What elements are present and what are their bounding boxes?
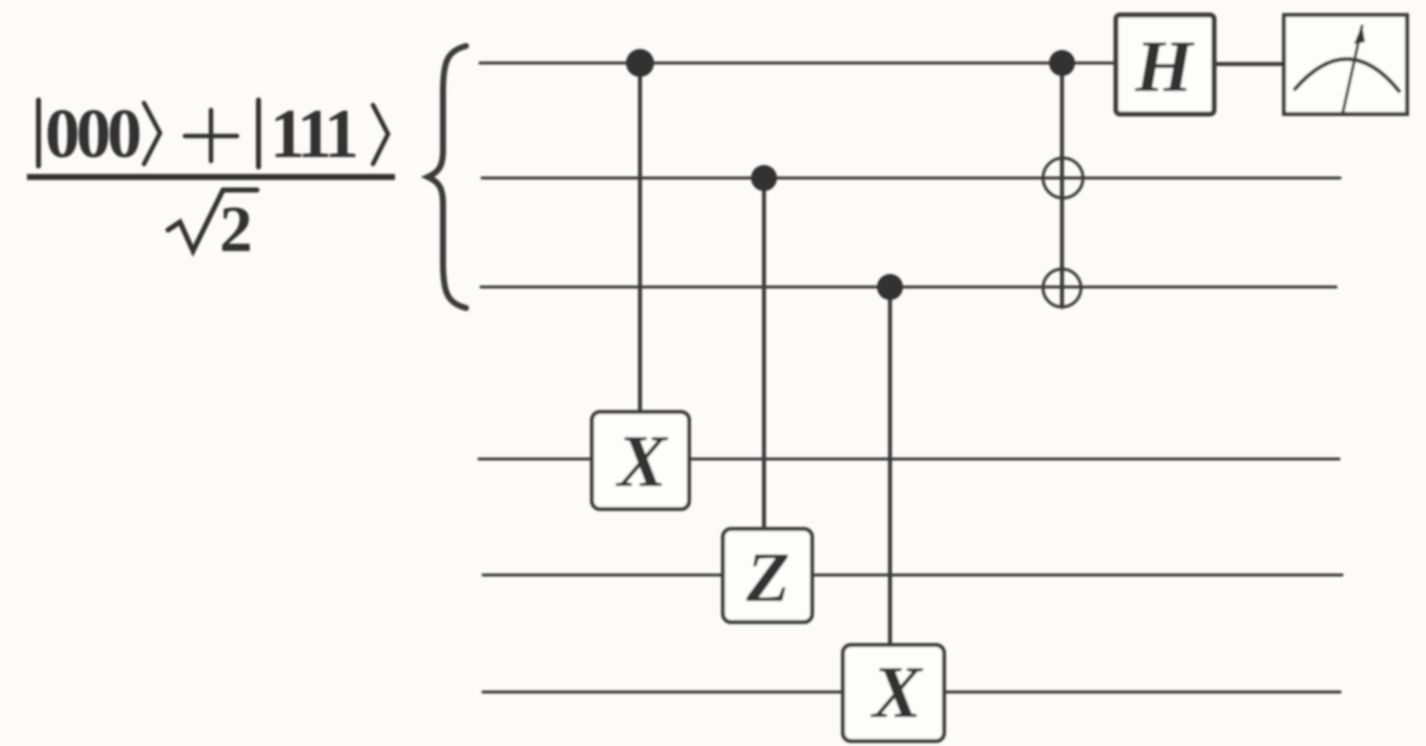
angle bracket 1 [144,103,160,164]
measurement meter box [1284,15,1407,114]
wire q3 [481,286,1336,289]
svg-text:000: 000 [45,96,142,173]
CNOT target on q3 [1043,269,1081,307]
wire q5 [483,574,1342,577]
gate X1 box [592,412,689,509]
fraction bar [27,174,395,180]
wire q1 [480,62,1116,65]
CNOT control line [1060,63,1064,307]
CNOT target on q2 [1043,158,1083,198]
svg-text:111: 111 [270,96,359,173]
wire q2 [482,177,1340,180]
svg-text:2: 2 [220,193,253,266]
meter needle [1343,26,1362,112]
control dot on q3 [877,274,903,300]
control line q2 to Z [762,178,766,529]
ket bar 2 [256,100,261,167]
meter needle arrowhead [1354,25,1365,44]
control dot on q2 [751,165,777,191]
radical sign [168,190,257,251]
wire q1 segment H to meter [1214,62,1284,66]
gate Z box [723,529,812,622]
wire q4 [479,458,1339,461]
svg-text:Z: Z [745,539,789,617]
ket bar 1 [36,100,41,166]
gate X2 box [843,645,944,741]
gate H box [1116,15,1214,114]
control line q3 to X2 [888,287,892,645]
svg-text:X: X [615,421,668,503]
meter arc [1295,59,1399,91]
svg-text:H: H [1134,26,1195,108]
control line q1 to X1 [638,63,642,412]
state label |000>+|111> / sqrt2 [27,96,395,266]
angle bracket 2 [373,105,388,164]
brace [428,46,466,308]
svg-text:X: X [870,652,923,734]
CNOT control dot [1049,50,1075,76]
control dot on q1 [626,49,654,77]
plus sign [185,110,237,161]
wire q6 [483,691,1340,694]
